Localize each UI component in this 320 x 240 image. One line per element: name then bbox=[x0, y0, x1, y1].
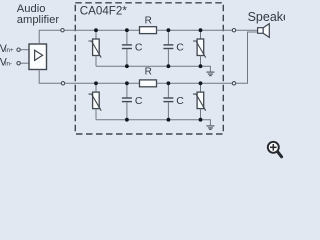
wire Vin+ stub bbox=[20, 49, 29, 51]
svg-text:C: C bbox=[135, 42, 143, 54]
svg-text:C: C bbox=[135, 95, 143, 107]
zoom magnifier icon bbox=[268, 142, 282, 157]
varistor RV4 (row2 right) bbox=[193, 83, 206, 119]
varistor RV3 (row2 left) bbox=[89, 83, 102, 119]
terminal Vin+ bbox=[17, 48, 20, 51]
wire Vin- stub bbox=[20, 62, 29, 64]
svg-text:C: C bbox=[176, 95, 184, 107]
speaker LS1 bbox=[258, 24, 270, 38]
svg-text:C: C bbox=[176, 42, 184, 54]
wire top row left segment bbox=[64, 29, 139, 31]
resistor R (row2) bbox=[140, 80, 157, 87]
capacitor C1 (row1 left) bbox=[122, 30, 132, 66]
ground (row2) bbox=[206, 126, 214, 129]
varistor RV2 (row1 right) bbox=[193, 30, 206, 66]
wire bottom row right segment bbox=[157, 82, 233, 84]
varistor RV1 (row1 left) bbox=[89, 30, 102, 66]
svg-text:R: R bbox=[145, 66, 152, 77]
capacitor C2 (row1 right) bbox=[163, 30, 173, 66]
resistor R (row1) bbox=[140, 27, 157, 34]
svg-text:CA04F2*: CA04F2* bbox=[80, 5, 128, 18]
wire row2 bottom bbox=[96, 120, 210, 126]
capacitor C4 (row2 right) bbox=[163, 83, 173, 119]
svg-text:R: R bbox=[145, 16, 152, 27]
svg-text:amplifier: amplifier bbox=[17, 14, 60, 26]
amplifier box U1 bbox=[29, 44, 47, 70]
wire bottom row left segment bbox=[65, 82, 140, 84]
ground (row1) bbox=[206, 72, 214, 76]
wire row1 bottom bbox=[96, 66, 210, 71]
terminal Vin- bbox=[17, 62, 20, 65]
wire to speaker bottom bbox=[236, 32, 258, 83]
capacitor C3 (row2 left) bbox=[122, 83, 132, 119]
terminal top output bbox=[61, 29, 64, 32]
wire top row right segment bbox=[157, 29, 233, 31]
junction dots row1 top bbox=[94, 28, 98, 32]
junction dots row2 bottom bbox=[125, 118, 129, 122]
terminal row2 out bbox=[232, 82, 235, 85]
dashed box CA04F2 bbox=[75, 3, 223, 134]
svg-text:Speaker: Speaker bbox=[248, 10, 285, 24]
wire amp output down bbox=[39, 70, 61, 84]
junction dots row2 top bbox=[94, 81, 98, 85]
wire amp output up bbox=[39, 30, 61, 44]
amplifier triangle bbox=[35, 50, 43, 60]
wire to speaker top bbox=[236, 29, 258, 31]
label Audio amplifier bbox=[17, 3, 60, 26]
terminal bottom output bbox=[61, 82, 64, 85]
terminal row1 out bbox=[232, 29, 235, 32]
junction dots row1 bottom bbox=[125, 64, 129, 68]
